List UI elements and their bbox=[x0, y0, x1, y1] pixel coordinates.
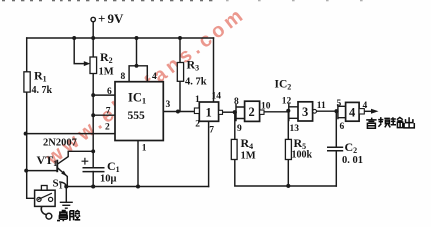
wire R2 wiper arrow branch bbox=[74, 38, 86, 64]
resistor R3 bbox=[177, 63, 183, 82]
junction top rail / pins 8-4 tab feed bbox=[135, 36, 139, 40]
junction pin 3 / R3 node bbox=[176, 110, 180, 114]
svg-text:11: 11 bbox=[317, 101, 326, 111]
R2 wiper arrowhead bbox=[84, 61, 91, 66]
switch S1 contacts bbox=[37, 197, 41, 201]
gate 4 box bbox=[346, 102, 360, 121]
junction top rail / R3 branch bbox=[178, 36, 182, 40]
wire pin 2 bbox=[26, 133, 115, 135]
char 腔 bbox=[70, 211, 74, 221]
gate 1 input square bbox=[194, 108, 199, 114]
switch S1 hook bbox=[60, 182, 67, 186]
char 音 bbox=[366, 118, 376, 122]
gate 3 output bubble bbox=[313, 109, 317, 113]
ground symbol bbox=[60, 202, 73, 208]
junction pin 7 node bbox=[91, 113, 95, 117]
char 输 bbox=[391, 117, 396, 125]
svg-text:4. 7k: 4. 7k bbox=[185, 77, 207, 88]
char 出 bbox=[404, 117, 414, 128]
wire gate1 to gate2 bbox=[223, 111, 237, 113]
gate 3 box bbox=[298, 102, 313, 121]
svg-text:100k: 100k bbox=[292, 150, 313, 161]
wire R2 branch vertical bbox=[92, 38, 94, 168]
junction collector / C1 node bbox=[91, 149, 95, 153]
svg-text:9V: 9V bbox=[108, 11, 125, 26]
wire pin 7 bbox=[93, 114, 115, 116]
svg-text:3: 3 bbox=[166, 100, 171, 110]
svg-text:5: 5 bbox=[337, 99, 342, 109]
svg-text:555: 555 bbox=[128, 110, 146, 122]
svg-text:9: 9 bbox=[237, 124, 242, 134]
resistor R1 bbox=[24, 72, 30, 92]
output arrowhead bbox=[371, 109, 379, 114]
svg-text:4: 4 bbox=[349, 105, 356, 119]
label 鼻腔 (nasal cavity) bbox=[57, 211, 80, 222]
svg-text:4. 7k: 4. 7k bbox=[32, 85, 53, 96]
wire pin 14 bbox=[213, 38, 215, 102]
wire audio output bbox=[364, 110, 372, 112]
wire +9V feed bbox=[92, 22, 94, 38]
svg-text:7: 7 bbox=[106, 107, 111, 117]
svg-text:2: 2 bbox=[195, 119, 200, 129]
svg-text:13: 13 bbox=[290, 124, 300, 134]
svg-text:8: 8 bbox=[234, 97, 239, 107]
wire gate3 to gate4 bbox=[317, 110, 338, 112]
wire pin 3 bbox=[163, 111, 194, 113]
transistor VT1 emitter arrowhead bbox=[61, 171, 67, 177]
svg-text:4: 4 bbox=[363, 101, 368, 111]
gate 1 box bbox=[199, 102, 218, 121]
junction top rail / R2 wiper branch bbox=[72, 36, 76, 40]
wire pins 8-4 tab feed bbox=[136, 38, 138, 66]
svg-text:14: 14 bbox=[212, 92, 222, 102]
junction gate1 out / gate2 in / R4 node bbox=[233, 110, 237, 114]
wire gate2 input bus bbox=[236, 105, 245, 121]
label 音频输出 (audio output) bbox=[366, 117, 414, 128]
wire pin 6 bbox=[93, 94, 115, 96]
svg-text:12: 12 bbox=[282, 96, 292, 106]
svg-text:8: 8 bbox=[121, 72, 126, 82]
gate 1 output square bbox=[219, 110, 223, 114]
power terminal +9V bbox=[91, 17, 95, 21]
resistor R5 bbox=[285, 139, 291, 159]
wire emitter of VT1 bbox=[58, 168, 67, 186]
junction pin 2 wire / left rail bbox=[24, 132, 28, 136]
svg-text:1M: 1M bbox=[99, 67, 114, 78]
cropped title text dashes top edge bbox=[2, 0, 363, 1]
junction gate2 out / gate3 in / R5 node bbox=[286, 109, 290, 113]
junction C1 / ground rail bbox=[91, 184, 95, 188]
wire gate4 input bus bbox=[338, 105, 346, 119]
wire IC2 pin7 dropper bbox=[208, 121, 210, 186]
svg-text:1M: 1M bbox=[241, 151, 256, 162]
capacitor C1 bbox=[83, 168, 105, 172]
junction base wire / left rail bbox=[24, 169, 28, 173]
svg-text:0. 01: 0. 01 bbox=[342, 155, 363, 166]
svg-text:2: 2 bbox=[105, 123, 110, 133]
wire C1 bottom stem bbox=[92, 172, 94, 187]
wire collector of VT1 bbox=[58, 151, 93, 164]
svg-text:2: 2 bbox=[249, 105, 255, 119]
wire base of VT1 bbox=[27, 170, 57, 172]
resistor R2 bbox=[90, 57, 97, 74]
wire R3 branch bbox=[179, 38, 181, 112]
svg-text:+: + bbox=[98, 11, 105, 26]
switch S1 terminal bump bbox=[41, 186, 47, 191]
IC1 555 box bbox=[115, 82, 163, 141]
svg-text:10μ: 10μ bbox=[100, 174, 117, 185]
wire left rail bbox=[27, 38, 35, 198]
char 频 bbox=[378, 117, 383, 127]
wire ground stem bbox=[65, 187, 67, 203]
char 鼻 bbox=[57, 211, 68, 222]
svg-text:6: 6 bbox=[107, 87, 112, 97]
junction pins 8-4 tab top bbox=[135, 64, 139, 68]
svg-text:7: 7 bbox=[209, 126, 214, 136]
wire gate3 input bus bbox=[289, 104, 298, 120]
svg-text:6: 6 bbox=[340, 122, 345, 132]
transistor VT1 base bar bbox=[56, 160, 58, 173]
wire C2 dropper bbox=[335, 111, 337, 186]
svg-text:10: 10 bbox=[261, 102, 271, 112]
plug circle (nasal probe) bbox=[46, 213, 52, 219]
resistor R4 bbox=[231, 139, 237, 159]
svg-text:1: 1 bbox=[195, 95, 200, 105]
wire top rail bbox=[27, 37, 214, 39]
wire gate2 to gate3 bbox=[264, 111, 288, 113]
switch S1 lever bbox=[38, 193, 52, 199]
gate 4 output square bbox=[359, 109, 364, 114]
junction pin 6 node bbox=[91, 93, 95, 97]
capacitor C2 bbox=[327, 147, 343, 151]
C1 plus sign bbox=[82, 158, 89, 165]
svg-text:4: 4 bbox=[152, 72, 157, 82]
watermark www.elecfans.com bbox=[41, 3, 250, 170]
junction emitter / ground rail bbox=[64, 184, 68, 188]
junction pin 1 / ground rail bbox=[136, 184, 140, 188]
svg-text:1: 1 bbox=[206, 106, 212, 120]
gate 2 output square bbox=[260, 110, 264, 114]
wire bottom left rail bbox=[66, 186, 208, 188]
junction top rail / +9V feed bbox=[91, 36, 95, 40]
wire pins 8-4 tab bbox=[129, 66, 147, 82]
junction R5 / bottom rail bbox=[286, 184, 290, 188]
svg-text:1: 1 bbox=[142, 144, 147, 154]
wire R5 dropper bbox=[287, 111, 289, 186]
svg-text:2N2007: 2N2007 bbox=[43, 138, 77, 149]
gate 2 box bbox=[245, 101, 260, 121]
switch S1 box bbox=[35, 190, 56, 206]
svg-text:3: 3 bbox=[302, 105, 308, 119]
wire R4 dropper bbox=[235, 112, 336, 186]
wire pin 1 bbox=[137, 141, 139, 187]
switch S1 cord bbox=[41, 206, 46, 214]
junction gate3 out / gate4 in / C2 node bbox=[334, 109, 338, 113]
